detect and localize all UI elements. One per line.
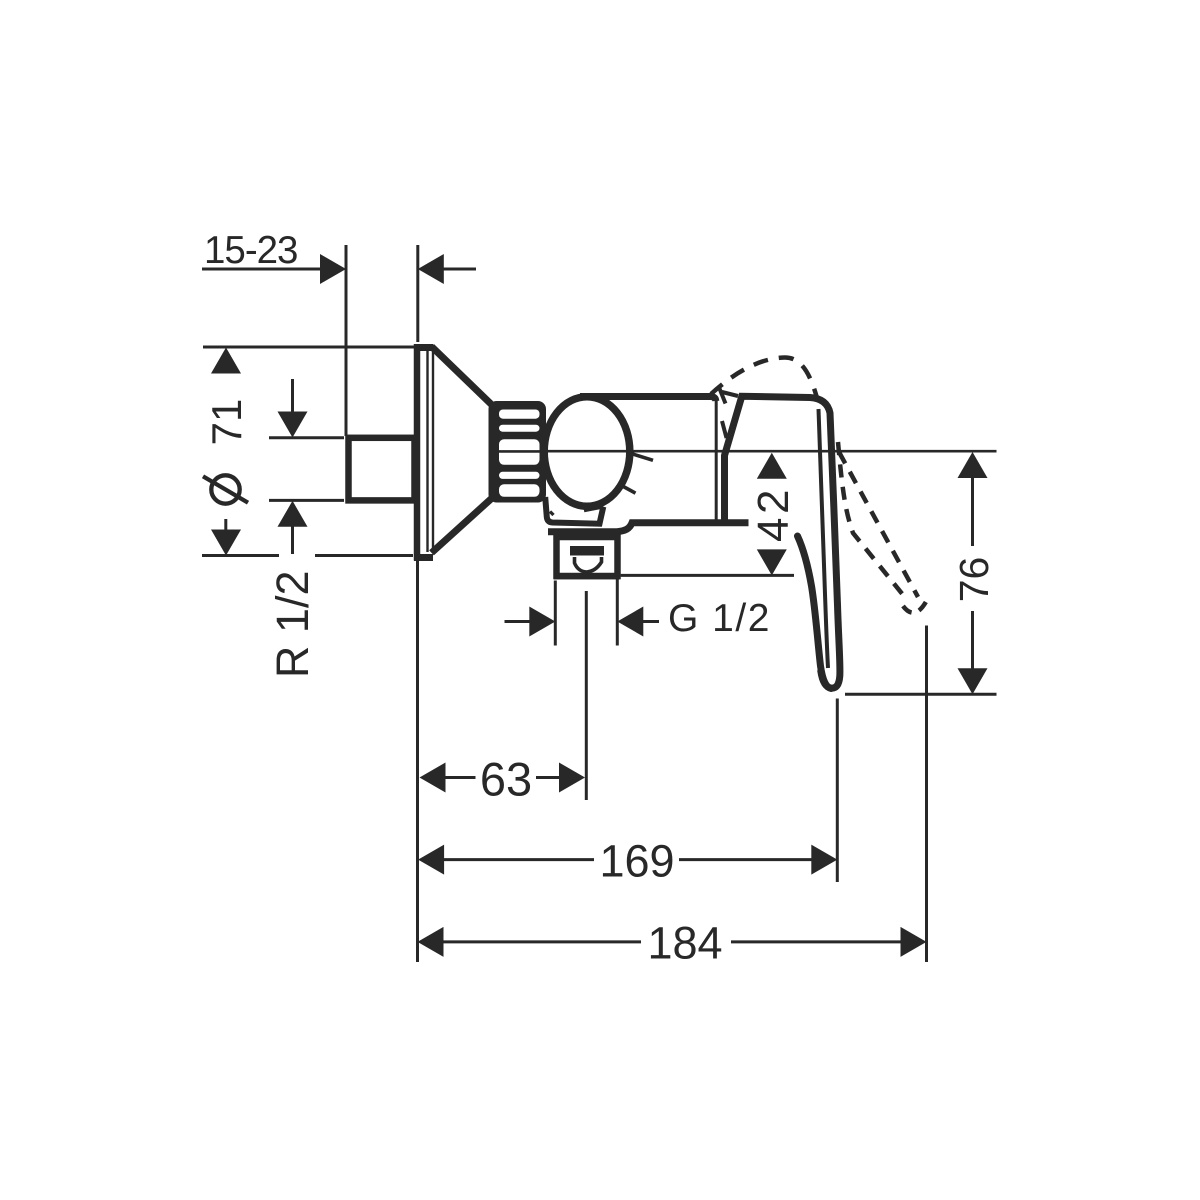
lever blade left S-curve [798,536,832,689]
handle hub and lever outer outline [725,396,840,688]
knurled nut slot 4 [499,472,540,479]
dimension 15-23 text [204,229,297,272]
collar below ball left edge [545,497,603,524]
knurled nut slot 1 [499,410,540,419]
dimension 63 right arrow with tail [536,776,560,779]
dashed raised lever outer edge [839,452,918,597]
extension line wall max at x=418 [416,245,419,342]
svg-text:R 1/2: R 1/2 [267,571,318,679]
extension line lever tip level [845,693,997,696]
dashed raised lever tip arc [903,600,927,613]
knurled nut slot 3 (middle) [499,439,540,465]
knurled nut slot 5 [499,484,540,497]
valve body top edge [580,397,716,402]
dimension 184 right arrow with tail [731,940,901,943]
dimension 63 left arrow with tail [420,763,446,793]
collar hatch tick 2 [584,507,603,511]
R 1/2 up arrow with tail [278,501,308,527]
R 1/2 down arrow with tail [291,379,294,414]
R 1/2 text (rotated) [267,571,318,679]
nipple top edge extension to left [269,436,344,439]
outlet port outer rectangle [557,537,618,576]
svg-text:184: 184 [647,917,722,968]
escutcheon flange face line 2 [432,351,434,552]
dimension 42 text (rotated) [749,486,798,542]
outlet port center line [585,591,588,800]
svg-text:15-23: 15-23 [204,229,297,272]
diameter symbol [211,475,239,503]
center line through knurl slot [497,450,546,453]
G 1/2 port right extension line [616,577,619,646]
hub junction tick 3 [722,421,727,438]
hub junction tick 1 [720,389,726,404]
valve body right end line [715,398,718,522]
svg-text:G 1/2: G 1/2 [668,597,771,640]
G 1/2 right-pointing arrow with tail [505,620,531,623]
escutcheon flange bottom cap [414,554,433,561]
dashed raised lever inner edge [838,442,908,601]
knurled nut slot 2 [499,425,540,432]
lever blade inner edge line [819,409,829,668]
ball spanner tick 1 [632,454,653,461]
diameter 71 up arrow [211,348,241,374]
svg-text:63: 63 [480,753,532,806]
valve body bottom edge with step [548,523,749,532]
extension line bottom of body at y=575 [621,574,794,577]
G 1/2 port left extension line [554,581,557,646]
svg-text:42: 42 [749,486,798,542]
escutcheon cone bottom edge [432,499,492,553]
dimension 76 down arrow with tail [971,611,974,670]
svg-text:76: 76 [951,557,997,603]
outlet port bottom bar [554,573,621,579]
supply nipple square [349,438,415,501]
escutcheon flange top cap [414,344,433,351]
dimension 184 text [647,917,722,968]
G 1/2 left-pointing arrow with tail [617,607,643,637]
outlet port inner cap [570,546,604,556]
dimension 63 text [480,753,532,806]
dimension 42 up arrow [757,453,787,479]
extension line top of escutcheon [203,346,415,349]
ball spanner tick 2 [622,486,636,494]
G 1/2 text [668,597,771,640]
center line of valve body [500,450,997,453]
escutcheon flange left edge [414,344,421,561]
dimension 15-23 line [202,268,323,271]
dimension 169 left arrow with tail [418,845,444,875]
extension line at lever tip x=837 [836,699,839,883]
extension line bottom of escutcheon [202,554,279,557]
svg-text:169: 169 [599,836,674,887]
dimension 42 down arrow [757,549,787,575]
diameter 71 text (rotated) [203,399,250,446]
diameter 71 down arrow [211,530,241,556]
outlet port inner hex profile [575,557,602,572]
ball joint of valve body [544,397,630,507]
extension line at dashed tip x=926.5 [925,626,928,963]
knurled nut body [489,401,547,503]
nipple bottom edge extension to left [269,499,344,502]
escutcheon cone top edge [432,347,492,405]
dimension 169 text [599,836,674,887]
dimension 76 up arrow with tail [958,452,988,478]
extension line wall min at x=346 [345,245,348,436]
dimension 76 text (rotated) [951,557,997,603]
dimension 184 left arrow with tail [418,927,444,957]
escutcheon flange face line 1 [426,351,428,552]
collar hatch tick 1 [550,512,554,516]
svg-text:71: 71 [203,399,250,446]
hub junction tick 2 [722,392,738,396]
dimension 15-23 right-pointing arrow [320,254,346,284]
dashed swing arc of handle [711,358,817,399]
left extension line below escutcheon [416,559,419,962]
dimension 15-23 left-pointing arrow with tail [418,254,444,284]
dimension 169 right arrow with tail [679,858,812,861]
